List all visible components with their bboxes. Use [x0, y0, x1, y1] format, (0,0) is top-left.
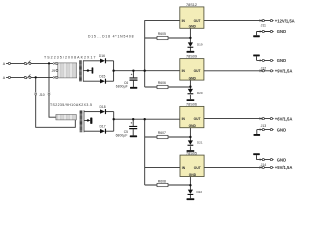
- connector J14 pin2 circles: [259, 166, 272, 168]
- wire J14 gnd row: [257, 155, 263, 160]
- wire D16 cathode to corner: [106, 60, 114, 62]
- junction reg4 gnd node: [189, 184, 191, 186]
- terminal T1 center tap bar: [92, 67, 94, 73]
- svg-text:GND: GND: [277, 127, 286, 132]
- regulator U2 78S09: [180, 59, 204, 81]
- wire reg1 gnd drop: [189, 28, 191, 42]
- diode D18: [100, 109, 106, 114]
- svg-text:R606: R606: [158, 81, 166, 85]
- svg-text:GND: GND: [189, 173, 197, 177]
- transformer T1 secondary line: [82, 60, 84, 81]
- wire J13 gnd row: [257, 130, 262, 134]
- svg-text:OUT: OUT: [194, 19, 201, 23]
- diode D17: [100, 129, 106, 134]
- connector J9 pin1: [53, 62, 56, 64]
- svg-text:R605: R605: [158, 32, 166, 36]
- wire reg3 output row: [204, 118, 262, 120]
- svg-text:+12V/1,5A: +12V/1,5A: [275, 18, 295, 23]
- svg-text:D21: D21: [197, 141, 203, 145]
- junction C5 node: [132, 118, 134, 120]
- wire between connector circles row3: [265, 59, 274, 61]
- wire C6 stub bottom: [132, 81, 134, 87]
- transformer T2 core bar: [80, 110, 83, 132]
- svg-text:+6V/1,5A: +6V/1,5A: [275, 116, 293, 121]
- svg-text:D18: D18: [100, 105, 106, 109]
- wire C6 stub top: [132, 71, 134, 78]
- wire reg3 diode stub to ground: [189, 146, 191, 150]
- switch S1 row1: [24, 60, 31, 65]
- wire reg2 output row: [204, 70, 262, 72]
- junction C6 node: [132, 70, 134, 72]
- transformer T1 core bar: [79, 60, 82, 81]
- svg-text:D17: D17: [100, 125, 106, 129]
- capacitor C6: [130, 74, 138, 81]
- svg-text:R607: R607: [158, 131, 166, 135]
- ground J12: [253, 55, 260, 57]
- resistor R606: [157, 85, 168, 88]
- wire R607 line rail to reg3 gnd: [145, 136, 191, 138]
- junction T1 center tap dot: [87, 69, 89, 71]
- connector J9 pin2: [53, 76, 56, 78]
- ground below C6: [130, 87, 137, 89]
- wire between connector circles row8: [265, 166, 274, 168]
- wire drop from row1 to J10 and T2 primary left: [49, 63, 56, 117]
- switch S2 row2: [24, 74, 31, 79]
- wire reg4 gnd drop: [189, 177, 191, 190]
- ground J14: [253, 153, 260, 155]
- regulator U1 78S12: [180, 7, 204, 29]
- wire between connector circles row4: [265, 70, 274, 72]
- wire T2 rectifier vertical join: [113, 112, 115, 132]
- junction T1 rectifier node: [112, 70, 114, 72]
- wire D18 cathode to corner: [106, 111, 114, 113]
- terminal T2 center tap bar: [90, 118, 92, 124]
- connector J13 pin2 circles: [260, 128, 273, 130]
- svg-text:GND: GND: [189, 124, 197, 128]
- svg-text:+5V/1,5A: +5V/1,5A: [275, 165, 293, 170]
- wire J12 gnd row: [257, 56, 263, 60]
- svg-text:D15: D15: [99, 74, 105, 78]
- svg-text:R608: R608: [158, 179, 166, 183]
- wire D15 cathode to corner: [106, 80, 114, 82]
- connector J12 pin2 circles: [259, 70, 272, 72]
- connector J10 pin1: [48, 93, 50, 96]
- wire T1 secondary bottom lead to D15: [83, 80, 100, 82]
- wire between connector circles row2: [265, 31, 274, 33]
- svg-text:D20: D20: [197, 91, 203, 95]
- junction rail feed1: [144, 70, 146, 72]
- terminal A row2: [3, 76, 11, 80]
- svg-text:GND: GND: [277, 29, 286, 34]
- transformer T2 secondary line: [83, 110, 85, 132]
- svg-text:J13: J13: [261, 124, 267, 128]
- wire input row1: [6, 62, 53, 64]
- terminal A row1: [3, 62, 11, 66]
- wire reg2 gnd drop: [189, 80, 191, 89]
- svg-text:J10: J10: [39, 93, 45, 97]
- ground below D22: [187, 198, 195, 200]
- wire top rail: [145, 21, 180, 87]
- wire T1 secondary top lead to D16: [83, 60, 100, 62]
- regulator U4 78S05: [180, 155, 204, 177]
- ground J11: [253, 35, 260, 37]
- wire input row2: [6, 76, 53, 78]
- wire J11 gnd row: [257, 32, 263, 36]
- svg-text:78S12: 78S12: [186, 3, 197, 7]
- connector J14 pin1 circles: [260, 158, 273, 160]
- diode D15: [100, 79, 106, 84]
- svg-text:D19: D19: [197, 43, 203, 47]
- svg-text:6800µF: 6800µF: [116, 85, 128, 89]
- connector J13 pin1 circles: [259, 117, 272, 119]
- diode D16: [100, 58, 106, 63]
- diode D21: [188, 140, 194, 145]
- svg-text:D16: D16: [99, 54, 105, 58]
- svg-text:GND: GND: [277, 58, 286, 63]
- connector J10 pin2: [35, 93, 37, 96]
- wire feed2 from rectifier node to regulator 3 input: [114, 118, 180, 120]
- diode D20: [188, 89, 194, 94]
- junction row2 x35.7: [35, 76, 37, 78]
- svg-text:GND: GND: [189, 25, 197, 29]
- wire D17 cathode to corner: [106, 130, 114, 132]
- ground below C5: [130, 135, 137, 137]
- junction row1 x49: [48, 62, 50, 64]
- wire R608 line rail corner to reg4 gnd: [145, 184, 191, 186]
- wire R605 line rail to reg1 gnd: [145, 37, 191, 39]
- junction reg1 gnd node: [189, 37, 191, 39]
- wire reg1 diode stub to ground: [189, 48, 191, 51]
- wire C5 stub bottom: [132, 129, 134, 135]
- wire between connector circles row6: [265, 129, 274, 131]
- svg-text:D15...D18 4*1N5408: D15...D18 4*1N5408: [88, 35, 134, 39]
- junction reg3 gnd node: [189, 136, 191, 138]
- wire reg4 output row: [204, 166, 262, 168]
- wire bottom rail: [144, 119, 146, 185]
- svg-text:J9: J9: [52, 69, 56, 73]
- svg-text:6800µF: 6800µF: [116, 134, 128, 138]
- svg-text:D22: D22: [197, 190, 203, 194]
- ground below D21: [187, 150, 195, 152]
- resistor R608: [157, 183, 168, 186]
- wire between connector circles row7: [265, 159, 274, 161]
- svg-text:GND: GND: [189, 77, 197, 81]
- transformer T1 primary terminal circles: [56, 62, 58, 78]
- svg-text:78S09: 78S09: [186, 55, 197, 59]
- wire C5 stub top: [132, 119, 134, 126]
- transformer T2 primary winding box: [56, 115, 76, 120]
- wire drop from row2 to J10 and T2 primary bottom: [36, 77, 76, 127]
- junction T2 center tap dot: [87, 119, 89, 121]
- wire R606 line rail corner to reg2 gnd: [145, 86, 191, 88]
- svg-text:GND: GND: [277, 157, 286, 162]
- junction reg2 gnd node: [189, 86, 191, 88]
- wire reg4 diode stub to ground: [189, 195, 191, 198]
- svg-text:OUT: OUT: [194, 117, 201, 121]
- capacitor C5: [129, 122, 137, 129]
- wire feed1 from rectifier node to regulator 2 input: [114, 70, 180, 72]
- wire reg4 input from rail: [145, 166, 180, 168]
- wire T1 center tap: [83, 70, 91, 72]
- wire T2 secondary bottom lead to D17: [84, 130, 100, 132]
- ground below D19: [187, 51, 195, 53]
- diode D19: [188, 42, 194, 47]
- ground below D20: [187, 99, 195, 101]
- diode D22: [188, 190, 194, 195]
- wire between connector circles row1: [265, 20, 274, 22]
- svg-text:J11: J11: [261, 24, 266, 28]
- wire reg1 output row: [204, 20, 262, 22]
- wire T2 center tap: [84, 120, 90, 122]
- svg-text:OUT: OUT: [194, 166, 201, 170]
- connector J12 pin1 circles: [260, 59, 273, 61]
- resistor R607: [157, 135, 168, 138]
- regulator U3 78S06: [180, 106, 204, 128]
- junction rail feed2: [144, 118, 146, 120]
- svg-text:TS2235/2008AK2X17: TS2235/2008AK2X17: [44, 56, 96, 60]
- resistor R605: [157, 36, 168, 39]
- connector J11 pin1 circles: [259, 19, 272, 21]
- transformer T1 primary winding box: [58, 63, 77, 78]
- connector J11 pin2 circles: [260, 30, 273, 32]
- wire between connector circles row5: [265, 118, 274, 120]
- wire T2 secondary top lead to D18: [84, 111, 100, 113]
- svg-text:TS2235/9H10AK2X3.5: TS2235/9H10AK2X3.5: [50, 103, 92, 107]
- wire reg2 diode stub to ground: [189, 95, 191, 99]
- ground J13: [254, 134, 261, 136]
- wire reg3 gnd drop: [189, 128, 191, 141]
- junction T2 rectifier node: [113, 118, 115, 120]
- wire T1 rectifier vertical join: [113, 61, 115, 81]
- svg-text:+9V/1,5A: +9V/1,5A: [275, 69, 293, 74]
- svg-text:OUT: OUT: [194, 69, 201, 73]
